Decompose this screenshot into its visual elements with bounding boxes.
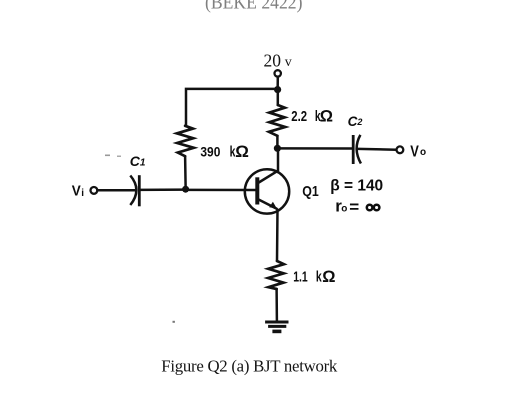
svg-text:2.2: 2.2	[291, 108, 307, 125]
output terminal Vo	[397, 146, 404, 153]
svg-text:C: C	[348, 114, 358, 129]
svg-text:Ω: Ω	[320, 108, 333, 126]
svg-text:Figure Q2 (a) BJT network: Figure Q2 (a) BJT network	[161, 357, 338, 376]
svg-text:β = 140: β = 140	[330, 177, 383, 194]
supply terminal 20V	[275, 70, 281, 76]
wire R1 to collector node	[276, 136, 279, 149]
svg-text:o: o	[420, 147, 426, 158]
scan speck 1	[105, 155, 110, 157]
capacitor C1	[130, 175, 139, 206]
wire collector node to C2	[277, 147, 352, 150]
svg-text:V: V	[72, 183, 81, 200]
wire base node to transistor base	[189, 189, 255, 192]
resistor RE 1.1k zigzag	[268, 261, 284, 289]
svg-text:20: 20	[264, 50, 282, 70]
scan speck 3	[173, 321, 175, 323]
resistor R1 2.2k zigzag	[269, 105, 285, 136]
svg-text:=: =	[349, 197, 359, 216]
node supply junction	[274, 86, 281, 93]
emitter arrowhead	[269, 202, 277, 209]
svg-text:390: 390	[200, 144, 220, 160]
wire junction to R1	[277, 93, 280, 105]
svg-text:(BEKE 2422): (BEKE 2422)	[205, 0, 303, 13]
wire emitter to RE	[276, 210, 279, 262]
resistor R2 390k zigzag	[177, 126, 194, 156]
transistor Q1 emitter lead with arrow	[259, 200, 277, 209]
svg-text:v: v	[285, 55, 292, 70]
wire supply terminal to junction	[276, 77, 279, 86]
svg-text:o: o	[341, 203, 347, 214]
wire C1 to base node	[139, 188, 185, 191]
svg-text:Ω: Ω	[235, 142, 249, 161]
wire base node to R2	[184, 156, 187, 186]
transistor Q1 base bar	[255, 177, 259, 204]
wire top rail to 390k branch	[186, 89, 278, 126]
input terminal Vi	[91, 187, 98, 194]
infinity symbol	[367, 205, 380, 211]
svg-text:1.1: 1.1	[293, 268, 308, 285]
wire C2 to output terminal	[358, 148, 396, 151]
node base junction	[182, 186, 189, 193]
transistor Q1 collector lead	[259, 148, 278, 182]
transistor Q1 circle	[245, 169, 289, 213]
svg-text:V: V	[410, 144, 419, 161]
wire RE to ground	[275, 289, 278, 321]
svg-text:2: 2	[356, 117, 362, 127]
svg-text:Q1: Q1	[302, 183, 319, 200]
capacitor C2	[353, 135, 361, 164]
svg-text:i: i	[81, 188, 84, 199]
wire Vi terminal to C1	[97, 189, 135, 192]
ground	[265, 322, 288, 331]
svg-text:Ω: Ω	[322, 268, 335, 286]
scan speck 2	[117, 156, 121, 158]
svg-text:1: 1	[140, 158, 146, 169]
svg-text:k: k	[316, 268, 322, 285]
node collector	[274, 145, 281, 152]
